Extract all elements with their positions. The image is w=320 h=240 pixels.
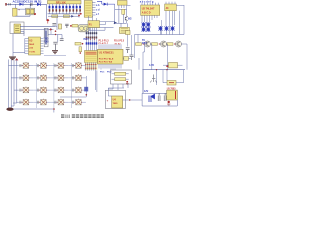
svg-text:P0.2: P0.2 [107,72,112,74]
connector J1 [5,3,6,6]
J4 pins top [166,2,175,4]
wire crystal drop [52,18,57,31]
resistor R1 [52,15,58,18]
capacitor C2 [52,24,56,25]
power jack box [10,22,24,34]
switch S9 [18,87,33,93]
keypad column wires [9,60,17,109]
transistor Q1 [125,16,127,20]
wire top-left horizontal [6,3,47,5]
MCU U1 bottom pins [99,64,121,70]
buzzer LS1 [78,25,89,32]
wires reset [112,74,129,79]
caption figure title [61,114,104,118]
keypad connector CN1 [85,51,98,63]
keypad column wire 1 [35,63,37,108]
U2 pins top [142,3,158,5]
switch S13 [18,99,33,105]
svg-text:7805: 7805 [113,103,119,105]
switch S11 [53,87,68,93]
switch S12 [71,87,86,93]
switch S14 [36,99,51,105]
wire J3 right [100,22,115,25]
wire right drop [46,4,48,20]
relay K2 [118,1,128,6]
keypad row wire 4 [17,101,18,103]
svg-text:BG: BG [128,18,132,21]
svg-text:P1.4 P1.7: P1.4 P1.7 [99,42,109,45]
svg-text:T1 R1: T1 R1 [29,52,36,54]
resistor R11 [115,78,126,81]
switch S15 [53,99,68,105]
capacitor C1 electrolytic [13,8,17,16]
resistor R6 [152,43,158,46]
power rail bottom [142,93,177,106]
MCU U1 body [98,49,124,64]
wire C7 to bus [138,58,140,70]
diode D20 [84,87,88,92]
svg-text:a b: a b [96,4,100,7]
wires below reset [108,84,128,90]
wires transistor columns [151,44,188,70]
svg-text:P2.0 P2.5: P2.0 P2.5 [114,41,125,43]
capacitor C3 [65,24,68,28]
ground [52,51,58,54]
diode D1 [19,3,23,6]
relay K3 [120,27,130,33]
switch S16 [71,99,86,105]
IC U2 decoder [141,5,160,15]
power node [50,28,52,30]
wires power box [108,88,142,100]
svg-text:AC220V: AC220V [13,0,24,4]
display DS1 [84,1,92,18]
LED D3 [37,3,41,6]
keypad row wire 2 [11,77,18,79]
capacitor C11 polarized [168,101,170,103]
bus under LEDs [48,13,81,15]
jack J2 body [14,24,21,33]
wire xtal right [128,30,132,55]
wire res row [48,14,79,18]
right bus [142,69,185,71]
transistor Q2 [145,41,151,47]
switch S6 [36,74,51,80]
switch S10 [36,87,51,93]
LED D17 [165,26,169,31]
resistor R10 [115,72,126,75]
resistor R3 [72,24,78,27]
right columns wires [161,5,184,35]
switch S8 [71,74,86,80]
svg-text:+: + [107,99,109,103]
svg-text:U1 AT89C51: U1 AT89C51 [99,51,114,55]
U2 pins bottom [142,15,157,24]
switch S4 [71,62,86,68]
LED array D4-D13 [49,6,82,9]
transistor Q4 [176,41,182,47]
resistor R12 [167,81,176,86]
reset box [111,70,132,84]
crystal Y1 [59,24,62,29]
diode D15 [114,21,117,24]
pin marks band 3 [86,42,98,44]
wire jack down rail [13,34,25,57]
resistor R4 vertical [122,9,125,14]
svg-text:e f: e f [96,13,99,16]
LED D14 [104,3,108,6]
svg-text:A B C D: A B C D [142,12,151,15]
wires U3 right up [45,28,51,37]
pin marks band 2 [86,37,98,40]
keypad column wire 3 [70,63,72,108]
svg-text:LD1: LD1 [36,0,42,4]
keypad right drop [60,76,86,97]
svg-text:P0.0 P0.7 ALE: P0.0 P0.7 ALE [99,58,114,61]
keypad row wire 1 [9,65,19,67]
switch S7 [53,74,68,80]
resistor R5 [136,43,142,46]
capacitor bank box [44,29,48,47]
pin marks band 1 [86,32,98,34]
switch S3 [53,62,68,68]
svg-text:INT0: INT0 [84,39,90,41]
svg-text:X1 X2: X1 X2 [115,43,122,45]
wire jack out2 [20,29,54,31]
svg-text:P2.0 P2.7 EA: P2.0 P2.7 EA [99,61,113,64]
wires MCU left to keypad [95,71,97,93]
power rail top [142,92,167,94]
junction [78,15,80,17]
svg-text:U2 74LS47: U2 74LS47 [142,7,155,10]
DS1 pins right [92,3,95,16]
switch S5 [18,74,33,80]
node VCC diamond [46,19,49,22]
ground node [126,81,128,83]
IC U3 MAX232 [29,37,41,55]
svg-text:MAX: MAX [29,43,34,46]
power node [15,58,18,60]
LED D18 [171,26,175,31]
K2 pins [119,5,131,9]
fuse F1 [9,3,10,5]
wire buzzer out [89,28,113,31]
caption texture [61,115,104,116]
keypad row wire 3 [14,89,18,91]
switch S2 [36,62,51,68]
wire lower [44,55,66,57]
svg-text:RP1 10K: RP1 10K [56,1,66,4]
resistor R7 [167,43,173,46]
ground blob [6,108,13,111]
capacitor C6 [126,31,131,35]
LED cluster DS2 [142,22,146,27]
resistor R9 vertical [79,47,82,52]
transistor Q6 [150,75,157,83]
wire jack out1 [20,25,55,27]
capacitor C7 [130,55,134,60]
wire cap drop [15,4,30,8]
driver loop wires [114,4,127,23]
ground [9,57,16,60]
keypad column wire 2 [53,63,55,110]
capacitor C5 [124,57,129,61]
switch S1 [18,62,33,68]
capacitor C12 [126,48,130,53]
capacitor C10 [164,93,166,101]
keypad row joins [34,66,71,103]
regulator U4 [112,96,123,108]
LED D16 [159,26,163,31]
resistor R2 [63,15,69,18]
transistor Q3 [161,41,167,47]
wire C1-K1 [15,9,30,16]
capacitor C8 electrolytic [149,94,155,102]
CN1 pins down [85,63,98,71]
junction [70,25,72,27]
keypad bottom bus [9,109,55,113]
svg-text:P0.1: P0.1 [100,72,105,74]
svg-text:c d: c d [96,9,100,12]
svg-text:DC12V IN: DC12V IN [24,0,38,4]
bus mid right [135,34,185,36]
connector J4 [165,4,177,11]
svg-text:4.7K: 4.7K [149,64,154,67]
U3 pins [25,39,29,54]
J3 pins down [87,28,97,51]
right verticals [143,70,184,94]
power box [105,90,125,108]
MCU U1 top pins [99,44,121,49]
diode D13 [71,15,74,18]
diode D2 [31,3,32,6]
capacitor C13 [53,42,57,50]
jack aux wire [21,32,25,37]
svg-text:12V: 12V [144,90,149,93]
relay K1 [26,8,35,15]
component X1 [169,63,178,68]
regulator U5 [167,90,178,100]
resistor network RP1 [48,1,82,4]
connector J3 [88,21,100,28]
resistor R8 [75,42,81,45]
LED cathode marks [49,9,81,11]
junction node [34,13,36,15]
svg-text:RST: RST [142,42,147,45]
wire Q5 row [48,35,62,42]
RP1 pins [49,4,80,14]
capacitor C9 [158,93,160,101]
capacitor C4 [60,39,64,41]
